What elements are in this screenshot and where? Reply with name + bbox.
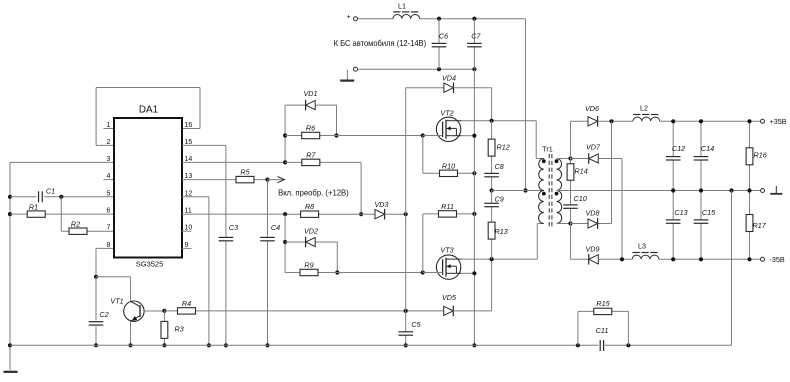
svg-text:2: 2	[107, 139, 111, 146]
svg-text:VT2: VT2	[440, 109, 453, 118]
svg-text:C7: C7	[471, 32, 481, 41]
svg-text:R2: R2	[71, 220, 80, 229]
svg-text:VD3: VD3	[375, 200, 389, 209]
svg-text:R3: R3	[175, 325, 184, 334]
svg-text:C14: C14	[701, 144, 714, 153]
svg-text:Tr1: Tr1	[542, 144, 553, 153]
svg-text:C15: C15	[702, 208, 716, 217]
svg-text:VT3: VT3	[440, 246, 453, 255]
svg-text:+35В: +35В	[770, 117, 787, 126]
svg-text:VD4: VD4	[442, 74, 456, 83]
svg-text:R1: R1	[29, 203, 38, 212]
svg-text:VD7: VD7	[586, 143, 601, 152]
svg-text:VD6: VD6	[585, 104, 599, 113]
svg-text:7: 7	[107, 225, 111, 232]
svg-text:L3: L3	[638, 242, 646, 251]
svg-text:R7: R7	[306, 150, 316, 159]
svg-text:R8: R8	[305, 202, 314, 211]
svg-text:+: +	[347, 14, 351, 21]
svg-text:C1: C1	[46, 187, 55, 196]
svg-text:R12: R12	[497, 143, 510, 152]
svg-text:4: 4	[107, 173, 111, 180]
svg-text:L2: L2	[640, 104, 648, 113]
svg-text:C13: C13	[674, 208, 687, 217]
svg-text:C2: C2	[99, 310, 108, 319]
svg-text:R14: R14	[575, 167, 588, 176]
svg-text:15: 15	[185, 139, 193, 146]
svg-text:1: 1	[107, 122, 111, 129]
svg-text:VD5: VD5	[442, 293, 457, 302]
svg-text:10: 10	[185, 225, 193, 232]
svg-text:R6: R6	[306, 123, 315, 132]
svg-text:12: 12	[185, 190, 193, 197]
svg-text:C11: C11	[596, 326, 609, 335]
svg-text:C8: C8	[495, 162, 504, 171]
svg-text:C4: C4	[271, 223, 280, 232]
svg-text:R5: R5	[240, 167, 250, 176]
svg-text:DA1: DA1	[139, 105, 159, 116]
svg-text:R11: R11	[441, 202, 454, 211]
svg-text:R13: R13	[495, 227, 508, 236]
svg-text:C6: C6	[439, 32, 448, 41]
svg-text:VD2: VD2	[304, 227, 318, 236]
svg-text:R16: R16	[754, 151, 767, 160]
svg-text:Вкл. преобр. (+12В): Вкл. преобр. (+12В)	[278, 187, 349, 197]
svg-text:11: 11	[185, 208, 192, 215]
svg-text:3: 3	[107, 156, 111, 163]
svg-text:VD8: VD8	[586, 209, 600, 218]
svg-text:L1: L1	[398, 1, 406, 10]
svg-text:5: 5	[107, 190, 111, 197]
svg-text:16: 16	[185, 122, 193, 129]
svg-text:R15: R15	[596, 299, 610, 308]
svg-text:8: 8	[107, 242, 111, 249]
svg-text:-35В: -35В	[770, 255, 785, 264]
svg-text:C9: C9	[495, 195, 504, 204]
svg-text:C10: C10	[574, 194, 587, 203]
svg-text:R17: R17	[753, 221, 767, 230]
svg-text:C5: C5	[411, 320, 421, 329]
svg-text:6: 6	[107, 208, 111, 215]
svg-text:C3: C3	[229, 223, 238, 232]
svg-text:C12: C12	[672, 144, 685, 153]
svg-text:R10: R10	[442, 162, 455, 171]
svg-text:14: 14	[185, 156, 193, 163]
svg-text:SG3525: SG3525	[136, 260, 164, 269]
svg-text:VT1: VT1	[110, 297, 123, 306]
svg-text:VD9: VD9	[586, 245, 600, 254]
svg-text:R4: R4	[182, 299, 191, 308]
svg-text:9: 9	[185, 242, 189, 249]
svg-text:К БС автомобиля (12-14В): К БС автомобиля (12-14В)	[334, 38, 427, 48]
svg-text:13: 13	[185, 173, 193, 180]
svg-text:R9: R9	[304, 261, 313, 270]
svg-text:VD1: VD1	[304, 89, 318, 98]
